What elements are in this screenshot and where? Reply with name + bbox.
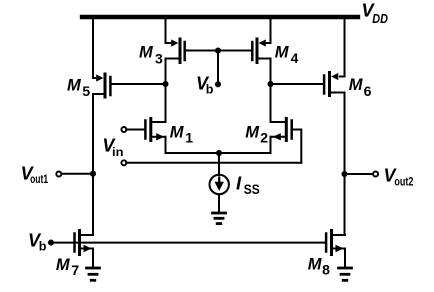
- wire M3 drain to M1 drain: [165, 59, 167, 123]
- svg-text:3: 3: [155, 50, 163, 66]
- wire Vout2: [345, 173, 373, 175]
- terminal Vin upper: [121, 127, 126, 132]
- label M8: [308, 256, 330, 278]
- wire M3 gate to M4 gate: [186, 50, 251, 52]
- junction Vb gates: [215, 47, 221, 53]
- node Vout2: [341, 171, 347, 177]
- wire M6 drain to M8 drain (right output rail): [344, 93, 346, 236]
- transistor M5: [93, 74, 110, 97]
- wire tail: [166, 152, 271, 154]
- svg-text:M: M: [349, 76, 364, 94]
- svg-text:M: M: [139, 43, 154, 61]
- svg-text:8: 8: [322, 262, 330, 278]
- svg-text:5: 5: [82, 83, 90, 99]
- wire M8 source to ground: [344, 249, 346, 267]
- svg-text:M: M: [56, 256, 71, 274]
- label Vb bottom: [28, 231, 47, 254]
- wire M5 gate lead: [112, 83, 166, 85]
- svg-text:2: 2: [260, 130, 268, 146]
- wire M4 drain to M2 drain: [270, 59, 272, 123]
- wire M6 gate lead: [271, 83, 323, 85]
- label M6: [349, 76, 372, 99]
- label Vb top: [196, 73, 214, 96]
- wire Vin to M1 gate: [126, 129, 144, 131]
- svg-text:b: b: [206, 83, 214, 97]
- wire VDD to M6 source: [344, 17, 346, 77]
- node M3 drain / M5 gate: [162, 81, 168, 87]
- current source ISS: [210, 153, 229, 212]
- transistor M6: [324, 73, 344, 96]
- transistor M2: [271, 119, 292, 141]
- ground M8: [339, 268, 352, 280]
- terminal Vout1: [56, 172, 61, 177]
- svg-text:out2: out2: [394, 174, 413, 188]
- svg-text:M: M: [67, 77, 82, 95]
- transistor M4: [252, 39, 270, 63]
- terminal Vb bottom: [48, 240, 54, 246]
- label M7: [56, 256, 80, 278]
- ground M7: [87, 268, 100, 280]
- transistor M7: [75, 231, 94, 255]
- wire M7 source to ground: [92, 249, 94, 267]
- node Vout1: [90, 171, 96, 177]
- svg-text:M: M: [245, 124, 260, 142]
- svg-text:in: in: [112, 145, 124, 159]
- svg-text:1: 1: [185, 130, 193, 146]
- wire Vb to M7 gate and M8 gate: [51, 242, 325, 244]
- svg-text:DD: DD: [372, 11, 388, 26]
- svg-text:6: 6: [364, 83, 372, 99]
- wire Vb stub: [217, 51, 219, 85]
- label M2: [245, 124, 268, 146]
- svg-text:4: 4: [291, 50, 299, 66]
- wire M5 drain to M7 drain (left output rail): [92, 94, 94, 235]
- wire VDD to M4 source: [270, 17, 272, 44]
- svg-text:M: M: [170, 124, 185, 142]
- svg-text:M: M: [275, 43, 290, 61]
- terminal Vout2: [373, 172, 378, 177]
- wire VDD to M3 source: [165, 17, 167, 44]
- wire VDD to M5 source: [92, 17, 94, 79]
- label M4: [275, 43, 299, 66]
- ground ISS: [213, 213, 226, 224]
- label Vin: [102, 136, 123, 159]
- svg-text:I: I: [236, 173, 242, 194]
- wire Vout1: [63, 173, 94, 175]
- label ISS: [236, 173, 260, 197]
- VDD rail: [82, 15, 358, 19]
- wire M2 gate lead: [293, 130, 301, 163]
- transistor M1: [145, 119, 165, 141]
- label Vout2: [384, 166, 414, 189]
- terminal Vb top: [215, 81, 221, 87]
- transistor M8: [326, 231, 345, 255]
- svg-text:out1: out1: [30, 172, 48, 186]
- terminal Vin lower: [121, 160, 126, 165]
- label VDD: [362, 1, 389, 27]
- node M4 drain / M6 gate: [267, 81, 273, 87]
- wire Vin lower to M2 gate: [126, 162, 301, 164]
- node tail: [216, 150, 222, 156]
- label M5: [67, 77, 90, 99]
- wire M2 source down: [270, 137, 272, 153]
- label M3: [139, 43, 163, 66]
- svg-text:SS: SS: [244, 181, 260, 197]
- label M1: [170, 124, 194, 146]
- transistor M3: [166, 39, 185, 63]
- svg-text:M: M: [308, 256, 323, 274]
- svg-text:7: 7: [71, 262, 79, 278]
- wire M1 source down: [165, 137, 167, 153]
- label Vout1: [21, 163, 49, 185]
- svg-text:b: b: [39, 240, 47, 254]
